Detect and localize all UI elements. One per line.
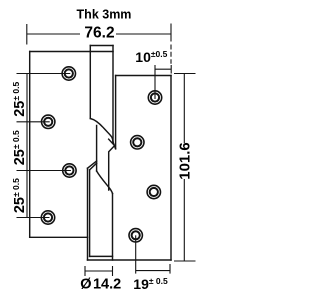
svg-text:Thk 3mm: Thk 3mm	[77, 8, 132, 22]
svg-text:101.6: 101.6	[176, 142, 193, 180]
svg-text:Ø14.2: Ø14.2	[80, 277, 121, 293]
svg-text:76.2: 76.2	[84, 24, 114, 41]
